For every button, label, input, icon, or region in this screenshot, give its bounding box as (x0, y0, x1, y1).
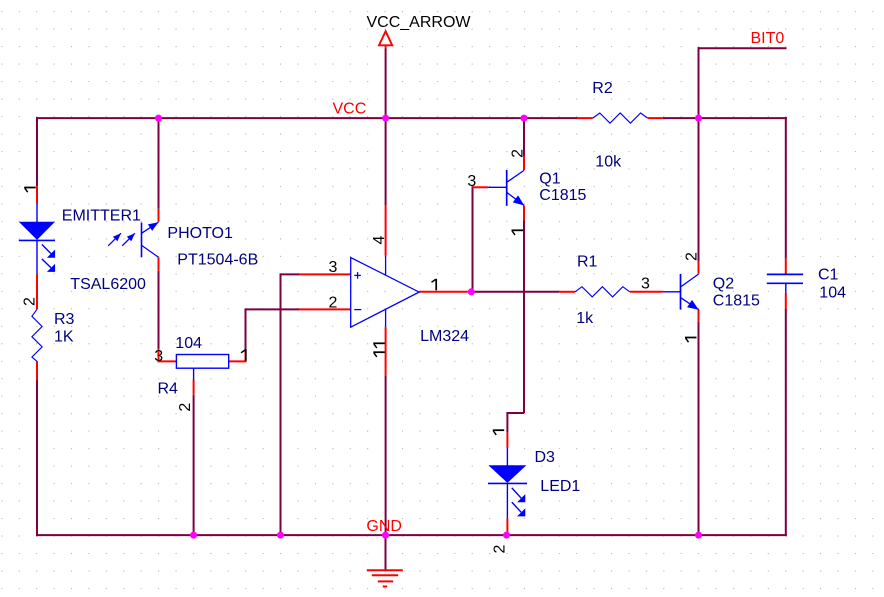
pin 2 stub U1 (299, 308, 351, 310)
wire GND bottom rail (36, 534, 787, 536)
svg-text:C1: C1 (818, 266, 839, 283)
pin 4 stub U1 (385, 206, 387, 256)
svg-text:VCC_ARROW: VCC_ARROW (367, 14, 472, 31)
pin number 1 U1 output (432, 279, 437, 291)
svg-text:EMITTER1: EMITTER1 (62, 207, 141, 224)
label R4 (158, 380, 179, 397)
pin stub R2 right (648, 117, 663, 119)
pin 1 stub Q2 emitter (698, 310, 700, 322)
wire GND symbol stem (385, 535, 387, 570)
pin number 2 D3 cathode (492, 545, 509, 554)
label R3 (54, 311, 75, 328)
svg-text:3: 3 (641, 275, 650, 292)
net label GND (366, 518, 402, 535)
pin 11 stub U1 (385, 327, 387, 375)
label R1 (577, 253, 598, 270)
junction VCC-Q2/BIT0 (695, 115, 702, 122)
svg-text:3: 3 (329, 259, 338, 276)
pin number 3 U1 +input (329, 259, 338, 276)
svg-text:D3: D3 (535, 449, 556, 466)
svg-text:GND: GND (366, 518, 402, 535)
junction VCC-U1pin4 (382, 115, 389, 122)
op-amp U1 LM324 triangle (351, 258, 419, 328)
wire PHOTO1 bottom (PHOTO1 to R4) (158, 271, 160, 349)
pin stub PHOTO1 bottom (158, 257, 160, 271)
svg-text:3: 3 (467, 173, 476, 190)
svg-text:3: 3 (154, 348, 163, 365)
svg-text:VCC: VCC (333, 101, 367, 118)
junction GND-Q2 emitter (695, 532, 702, 539)
wire right branch lower (C1 to bottom rail) (785, 309, 787, 536)
label C1 (818, 266, 839, 283)
resistor R3 (32, 309, 42, 361)
label R2 (592, 80, 613, 97)
label TSAL6200 (70, 276, 146, 293)
pin stub R1 left (559, 291, 575, 293)
pin stub R1 right / Q2 base (630, 291, 663, 293)
svg-text:2: 2 (22, 297, 39, 306)
junction VCC-PHOTO1 (155, 115, 162, 122)
svg-text:R1: R1 (577, 253, 598, 270)
wire VCC_ARROW stem (385, 49, 387, 119)
svg-text:TSAL6200: TSAL6200 (70, 276, 146, 293)
pin number 2 R4 wiper (177, 403, 194, 412)
net label VCC (333, 101, 367, 118)
svg-text:104: 104 (819, 284, 846, 301)
pin number 1 R4 right (241, 349, 246, 361)
svg-text:1K: 1K (54, 328, 74, 345)
svg-text:LM324: LM324 (420, 328, 469, 345)
svg-text:R3: R3 (54, 311, 75, 328)
label PT1504-6B (177, 252, 258, 269)
wire jog to D3 (506, 413, 524, 433)
label D3 value LED1 (540, 478, 580, 495)
label Q1 value C1815 (539, 187, 586, 204)
op-amp pin4 blue segment (385, 256, 387, 276)
pin 1 stub R4 (right) (229, 352, 247, 361)
net label VCC_ARROW (367, 14, 472, 31)
wire U1 pin3 horizontal (281, 273, 300, 275)
label R3 value 1K (54, 328, 74, 345)
wire left branch upper (VCC to EMITTER1) (36, 117, 38, 186)
pin 3 stub Q1 base (473, 186, 489, 188)
wire BIT0 horizontal (698, 47, 787, 49)
capacitor C1 (767, 274, 803, 293)
LED EMITTER1 (19, 204, 55, 274)
phototransistor PHOTO1 (108, 222, 158, 257)
label C1 value 104 (819, 284, 846, 301)
svg-text:4: 4 (371, 236, 388, 245)
pin 1 stub EMITTER1 (36, 186, 38, 204)
pin number 2 U1 -input (329, 294, 338, 311)
svg-text:R2: R2 (592, 80, 613, 97)
wire BIT0 vertical (698, 47, 700, 118)
pin number 3 R4 left (154, 348, 163, 365)
pin number 3 Q2 base (641, 275, 650, 292)
wire R4 wiper to GND rail (193, 395, 195, 535)
svg-text:BIT0: BIT0 (751, 30, 785, 47)
potentiometer R4 (176, 355, 228, 380)
label D3 (535, 449, 556, 466)
wire Q1 collector to VCC rail (523, 118, 525, 155)
op-amp minus sign (354, 309, 361, 311)
junction GND-R4 wiper (190, 532, 197, 539)
op-amp pin11 blue segment (385, 309, 387, 327)
pin 1 stub Q1 emitter (523, 206, 525, 221)
svg-text:1k: 1k (576, 310, 594, 327)
wire PHOTO1 top (VCC to PHOTO1) (158, 118, 160, 209)
wire VCC rail right segment (R2 to corner) (663, 117, 787, 119)
label PHOTO1 (167, 225, 233, 242)
svg-text:PHOTO1: PHOTO1 (167, 225, 233, 242)
pin stub R3 bottom (36, 361, 38, 380)
wire Q2 collector to VCC junction (698, 118, 700, 262)
wire U1 pin2 horizontal (246, 308, 300, 310)
label Q1 (539, 171, 560, 188)
label EMITTER1 (62, 207, 141, 224)
pin number 3 Q1 base (467, 173, 476, 190)
label Q2 (713, 276, 734, 293)
junction U1 output node (468, 288, 475, 295)
svg-text:2: 2 (329, 294, 338, 311)
svg-text:Q2: Q2 (713, 276, 734, 293)
transistor Q1 (488, 170, 524, 206)
pin 2 stub Q2 collector (698, 262, 700, 274)
svg-text:10k: 10k (595, 154, 622, 171)
label LM324 (420, 328, 469, 345)
pin number 4 U1 (371, 236, 388, 245)
wire +input to GND rail (280, 273, 282, 535)
wire VCC rail left segment (37, 117, 577, 119)
pin 2 stub D3 cathode (506, 518, 508, 531)
pin stub R2 left (577, 117, 593, 119)
label Q2 value C1815 (713, 292, 760, 309)
svg-text:PT1504-6B: PT1504-6B (177, 252, 258, 269)
wire right branch upper (VCC corner to C1) (785, 117, 787, 259)
wire U1 pin11 to GND rail (385, 376, 387, 535)
svg-text:2: 2 (684, 252, 701, 261)
pin number 2 Q1 collector (510, 149, 527, 158)
LED D3 (488, 448, 527, 518)
svg-text:2: 2 (177, 403, 194, 412)
ground symbol (367, 570, 403, 586)
svg-text:2: 2 (492, 545, 509, 554)
pin 1 stub D3 anode (506, 433, 508, 448)
pin 2 stub EMITTER1 / R3 top (36, 274, 38, 310)
wire R4 pin1 vertical (245, 308, 247, 352)
svg-text:C1815: C1815 (539, 187, 586, 204)
pin number 2 Q2 collector (684, 252, 701, 261)
resistor R2 (593, 113, 648, 123)
pin number 11 U1 (373, 343, 385, 357)
power symbol VCC_ARROW triangle (379, 31, 392, 48)
pin stub PHOTO1 top (158, 209, 160, 222)
wire Q2 emitter to GND rail (698, 322, 700, 535)
pin 2 stub Q1 collector (523, 156, 525, 171)
label R1 value 1k (576, 310, 594, 327)
junction VCC-Q1 (521, 115, 528, 122)
wire D3 cathode stub (506, 531, 508, 535)
label R2 value 10k (595, 154, 622, 171)
wire Q1 emitter down (523, 221, 525, 414)
svg-text:C1815: C1815 (713, 292, 760, 309)
pin stub C1 bottom (785, 293, 787, 309)
label R4 value 104 (175, 335, 202, 352)
pin 2 stub R4 wiper (193, 380, 195, 395)
pin number 1 Q1 emitter (512, 230, 524, 235)
op-amp plus sign (354, 272, 361, 279)
wire U1 pin4 to VCC rail (385, 118, 387, 206)
pin 3 stub U1 (299, 273, 351, 275)
pin number 1 EMITTER1 (24, 188, 36, 193)
svg-text:Q1: Q1 (539, 171, 560, 188)
svg-text:LED1: LED1 (540, 478, 580, 495)
junction GND-D3 (503, 532, 510, 539)
pin number 1 Q2 emitter (685, 338, 697, 343)
pin 3 stub R4 (left) (158, 348, 177, 361)
junction GND-plus-input (277, 532, 284, 539)
pin number 1 D3 anode (493, 430, 505, 435)
wire Q1 base vertical (472, 186, 474, 291)
pin 1 stub U1 output (419, 291, 468, 293)
net label BIT0 (751, 30, 785, 47)
transistor Q2 (663, 274, 699, 310)
pin stub C1 top (785, 259, 787, 274)
svg-text:2: 2 (510, 149, 527, 158)
junction GND-U1pin11 (382, 532, 389, 539)
svg-text:R4: R4 (158, 380, 179, 397)
svg-text:104: 104 (175, 335, 202, 352)
wire output row (U1 pin1 to R1) (468, 291, 560, 293)
pin number 2 EMITTER1/R3 (22, 297, 39, 306)
wire left branch lower (R3 to GND rail) (36, 381, 38, 537)
resistor R1 (575, 287, 630, 297)
